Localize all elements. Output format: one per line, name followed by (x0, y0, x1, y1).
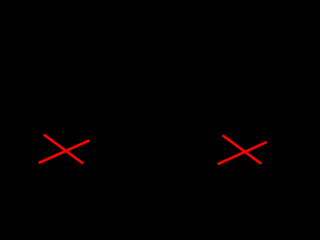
wire left rail down (19, 18, 21, 151)
wire from left rail to lamp L1 (20, 150, 54, 152)
node A junction (152, 148, 158, 154)
lamp L1 (54, 139, 78, 163)
wire from lamp L2 to right rail (256, 150, 290, 152)
red cross-out X over lamp L1 (39, 135, 90, 164)
wire from lamp L1 to node A (78, 150, 143, 152)
wire right rail up (289, 18, 291, 151)
red cross-out X over lamp L2 (218, 135, 267, 164)
wire from node A to lamp L2 (155, 150, 232, 152)
lamp L2 (232, 139, 256, 163)
wire from right rail to battery negative terminal (165, 17, 290, 19)
battery B1 (145, 8, 165, 28)
wire from battery positive terminal to left rail (20, 17, 145, 19)
